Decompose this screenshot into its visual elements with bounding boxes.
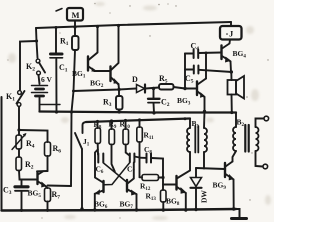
resistor R12 [142,175,159,181]
node [117,24,120,27]
wire C1 to middle bus [55,59,57,112]
wire zener drop [195,168,197,177]
svg-text:B2: B2 [237,118,245,129]
wire K2 to battery [39,75,40,84]
resistor R8 [95,128,101,144]
transistor BG3 [197,79,206,112]
svg-text:K2: K2 [26,62,35,73]
capacitor C1 [50,54,63,58]
node [152,111,155,114]
battery 6V [32,86,48,97]
svg-text:BG9: BG9 [213,181,227,192]
switch K2 [36,59,45,75]
resistor R10 [123,129,129,145]
wire stub battery area [40,104,61,106]
node [230,111,233,114]
wire speaker to bus [231,95,233,113]
resistor R7 [45,188,51,202]
wire J1 to ground rail [81,149,83,209]
svg-text:R3: R3 [103,98,112,109]
wire rail corner into J [230,22,232,26]
node R9 top [110,119,113,122]
lower section top rail [86,119,190,123]
stray mark near M [56,9,62,12]
wire [125,121,127,130]
wire R8 to C6 [97,144,99,155]
wire to R3 [118,90,120,97]
wire B1 secondary bottom to base line [203,152,205,169]
wire B2 primary bottom to BG9 collector [233,151,237,162]
left column R4 pot chain: wire node [17,128,20,131]
wire R5 to BG3 base node [174,87,186,89]
transistor BG8 [177,176,187,210]
ground symbol [236,209,240,217]
wire C2 to bus [153,103,156,113]
svg-text:R5: R5 [159,74,168,85]
transistor BG7 [127,163,137,211]
svg-text:R7: R7 [52,190,61,201]
output terminal 1 [264,116,269,121]
motor M box [67,8,83,21]
wire mid feedback [185,70,232,73]
wire M to rail [74,21,76,28]
svg-text:C5: C5 [185,74,194,85]
wire R10 to C7 [126,145,130,156]
node [194,208,197,211]
wire BG5 emitter node to R7 and right [46,186,71,189]
svg-text:BG7: BG7 [120,200,134,211]
svg-text:C3: C3 [3,186,12,197]
wire BG8 base [163,184,176,186]
wire node to C2 [153,89,155,99]
wire rail to R1 [74,27,76,36]
resistor R5 [159,84,174,90]
wire J to BG4 collector [222,40,230,49]
output terminal 2 [263,164,268,169]
wire B1 secondary top to bus [203,112,206,129]
capacitor C6 [98,154,103,163]
wire node to R6 [19,130,48,142]
transistor BG4 [222,46,232,73]
transformer B2 [233,113,259,152]
wire R7 to ground [47,202,49,211]
resistor R2 [16,157,22,171]
transistor BG5 [38,171,47,187]
node [162,208,165,211]
node [93,208,96,211]
node [72,90,75,93]
node R10 top [124,119,127,122]
svg-text:R2: R2 [25,160,34,171]
node R8 top [96,120,99,123]
relay J box [220,26,242,40]
wire R1 column down [71,50,75,186]
node junction top-left [35,39,38,42]
node [55,26,58,29]
node [161,176,164,179]
corner into J1 branch [83,122,87,133]
wire tap to C3 [21,180,23,187]
wire node down [18,130,20,135]
svg-text:C1: C1 [59,63,68,74]
resistor R9 [109,129,115,145]
node BG2 emitter [117,88,120,91]
wire to speaker [230,72,232,80]
svg-text:6 V: 6 V [41,75,52,84]
wire C8 to right column [152,158,164,190]
node [55,110,58,113]
node R11 top [138,118,141,121]
top positive rail [36,22,231,28]
svg-text:R6: R6 [53,144,62,155]
scan noise specks [7,3,268,219]
svg-text:J1: J1 [83,137,90,148]
wire R13 to ground [162,202,164,210]
transistor BG9 [225,162,234,210]
diode D [137,85,146,93]
wire rail to C1 [55,28,57,54]
wire [97,122,99,129]
wire BG3 collector riser [205,53,207,79]
svg-text:BG8: BG8 [166,197,180,208]
wire R11 to C8 node [139,142,141,177]
capacitor C8 [147,154,152,163]
node [46,209,49,212]
wire C3 to ground rail [21,192,23,211]
wire rail to K2 [36,28,38,58]
node [232,207,235,210]
wire R3 to bus [118,110,120,113]
svg-text:D: D [132,75,138,84]
middle signal rail [74,89,137,92]
node BG3 emitter on bus [203,110,206,113]
svg-text:BG1: BG1 [72,69,86,80]
svg-text:R11: R11 [144,131,155,142]
wire R2 to BG5 base [19,171,36,180]
svg-text:R13: R13 [146,192,157,203]
resistor R1 [72,36,79,50]
bottom ground rail [2,209,237,211]
wire top feedback to BG4 base [185,53,221,54]
svg-text:M: M [72,10,80,20]
node [70,110,73,113]
cross-coupling wire C7 to BG6 base [105,163,130,185]
wire R12 right [159,177,164,179]
svg-text:BG5: BG5 [28,189,42,200]
svg-text:DW: DW [200,190,209,203]
capacitor C4 [194,50,199,59]
svg-text:K1: K1 [6,92,15,103]
BG5 collector stub [37,170,48,172]
zener diode DW [191,178,202,188]
node [20,209,23,212]
wire K1 to lower-left node [18,107,20,131]
svg-text:C6: C6 [96,165,104,176]
cross-coupling wire C6 to BG7 base [104,163,127,182]
wire R4 to R2 [18,149,20,157]
svg-text:R12: R12 [140,182,151,193]
wire R6 to BG5 collector [47,156,49,171]
wire [139,120,141,127]
wire B2 secondary top to terminal [256,119,264,128]
node [183,87,186,90]
left page border [1,97,3,211]
node [205,52,208,55]
node [184,208,187,211]
svg-text:B1: B1 [192,119,200,130]
svg-text:J: J [229,29,234,39]
wire node to BG3 base [185,88,196,90]
potentiometer R4 [12,133,27,150]
relay contact J1 [75,133,82,149]
wire branch to K1 [20,41,37,90]
svg-text:BG3: BG3 [177,96,191,107]
node [152,87,155,90]
svg-text:BG6: BG6 [94,200,108,211]
capacitor C2 [148,99,160,103]
node BG4 emitter [230,70,233,73]
node [80,207,83,210]
svg-text:C8: C8 [144,145,152,156]
transistor BG1 [88,27,110,72]
wire R9 down to cross node [112,145,115,172]
svg-text:BG4: BG4 [233,49,247,60]
wire B2 secondary bottom to terminal [256,151,263,167]
resistor R11 [137,127,143,142]
resistor R3 [116,96,123,110]
wire node to C8 [140,157,147,159]
transistor BG6 [94,150,103,211]
transistor BG2 [111,26,120,90]
middle horizontal bus [40,112,237,113]
resistor R13 [161,190,167,202]
svg-text:C2: C2 [161,98,170,109]
node [73,25,76,28]
wire B1 primary bottom to BG8 collector [178,152,191,178]
svg-text:BG2: BG2 [90,79,104,90]
capacitor C7 [130,154,135,163]
wire [111,121,113,129]
transformer B1 [187,119,207,153]
svg-text:C4: C4 [191,42,200,53]
speaker Y [228,76,245,99]
svg-text:R4: R4 [26,139,35,150]
node [118,110,121,113]
svg-text:R1: R1 [60,37,69,48]
wire battery to bottom bus [39,98,41,112]
wire zener node line to BG9 base [196,168,225,169]
wire zener to ground [195,189,197,210]
wire R12 left [140,176,143,178]
capacitor C3 electrolytic [15,187,28,191]
wire C7 right plate to node [135,157,140,158]
node [96,25,99,28]
capacitor C5 [194,66,199,74]
node [135,208,138,211]
resistor R6 [45,142,51,156]
wire feedback left vertical [184,54,186,89]
switch K1 [17,91,25,107]
wire D to R5 [146,88,160,89]
